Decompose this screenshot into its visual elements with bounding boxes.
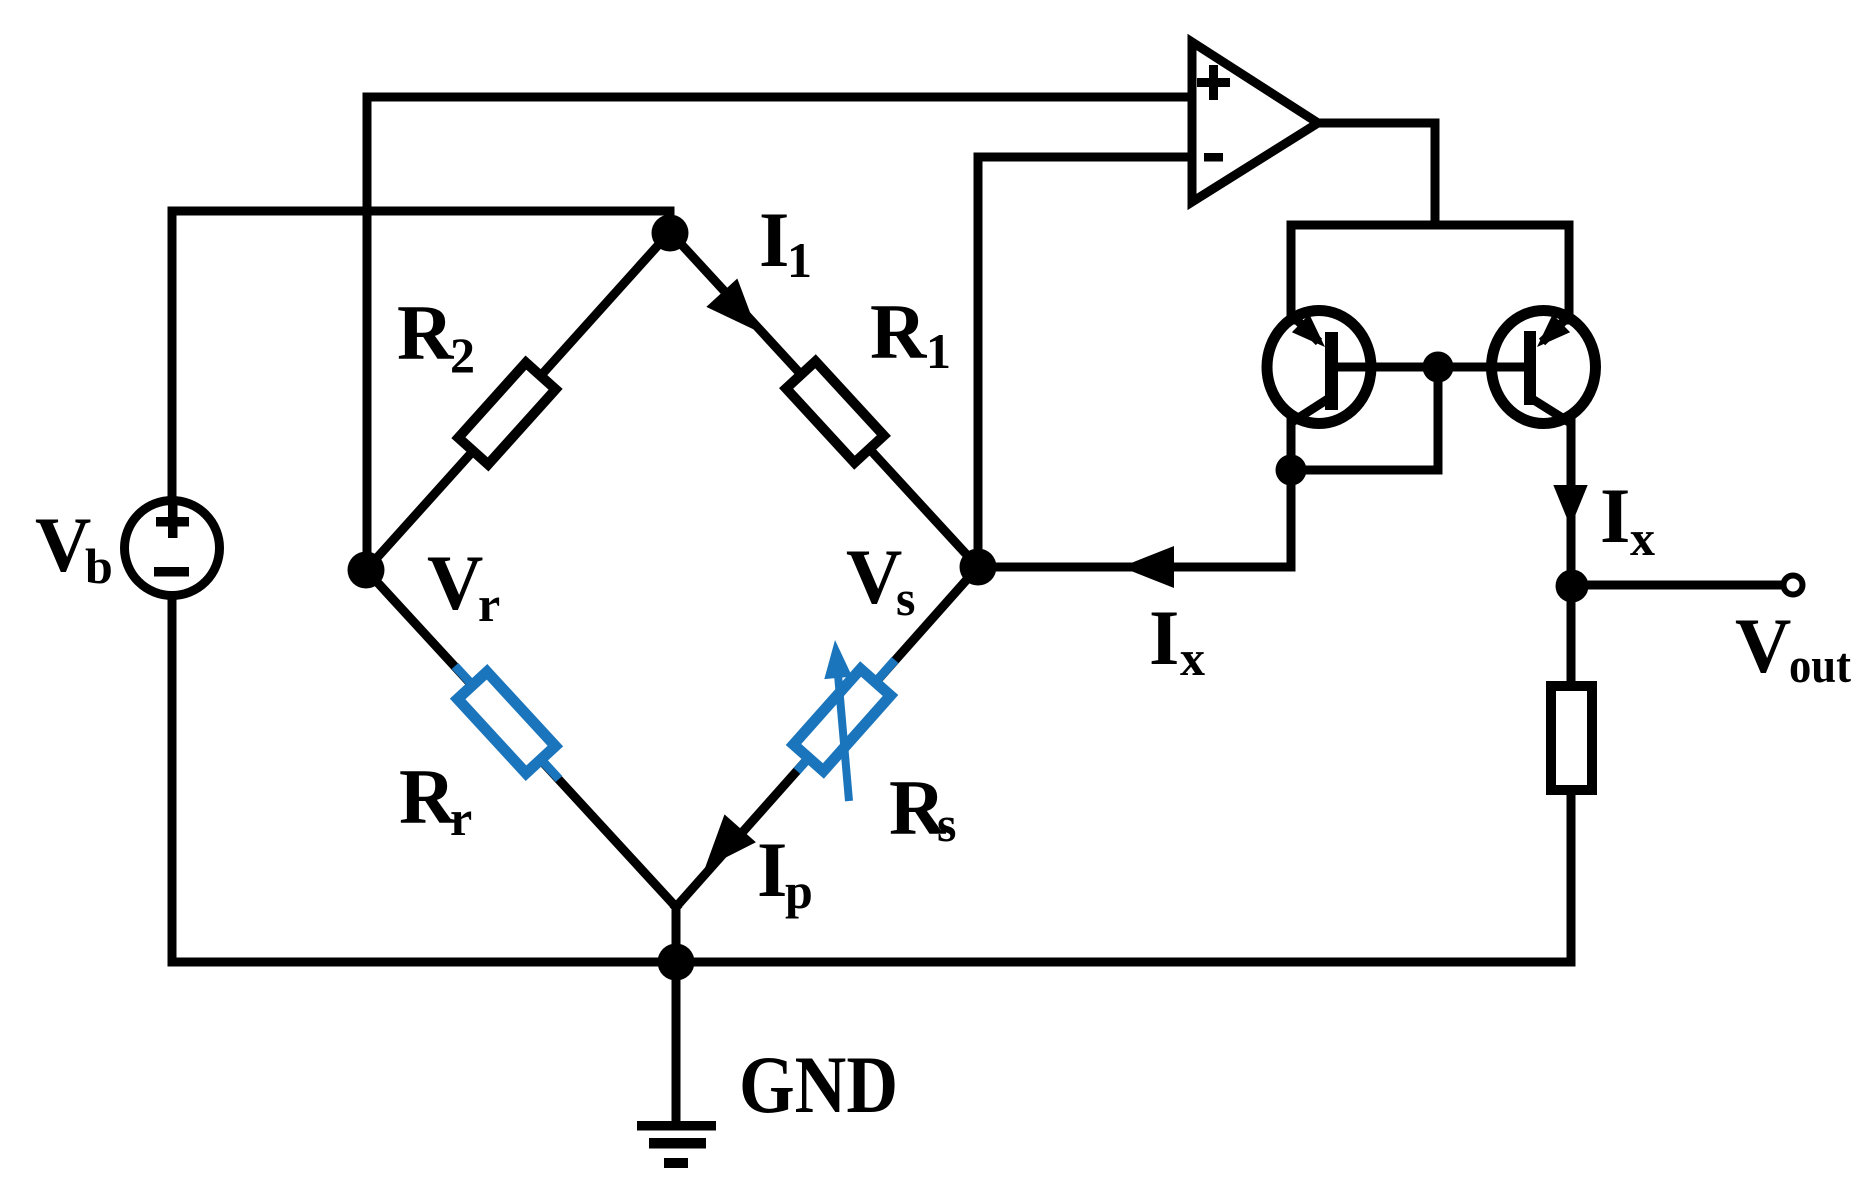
arrow I1 [706, 279, 757, 332]
transistor Q2 (PNP) [1492, 311, 1596, 425]
wire RL bottom lead [1567, 790, 1576, 962]
node Vs [960, 549, 997, 586]
arrow Ip [705, 814, 756, 868]
wire opamp plus input horizontal [367, 93, 1192, 102]
svg-text:2: 2 [450, 327, 475, 383]
resistor Rr (blue) [455, 666, 559, 779]
svg-text:1: 1 [926, 323, 951, 379]
ground [637, 1121, 716, 1168]
wire bridge branch R1 top-right [670, 232, 978, 567]
svg-text:V: V [846, 533, 902, 620]
svg-text:I: I [759, 196, 789, 283]
svg-text:R: R [399, 753, 457, 840]
wire Q1 collector down to Vs wire [1287, 418, 1296, 567]
wire Q2 collector down to Vout node [1567, 418, 1576, 686]
wire Vb bottom lead [168, 595, 177, 962]
svg-text:out: out [1789, 637, 1851, 693]
svg-text:V: V [427, 539, 483, 626]
svg-text:s: s [937, 796, 956, 852]
resistor RL [1551, 686, 1592, 790]
node base rail [1423, 352, 1454, 383]
svg-text:I: I [1149, 594, 1179, 681]
node top of bridge [652, 215, 689, 252]
transistor Q1 (diode-connected PNP) [1267, 311, 1371, 425]
svg-text:r: r [450, 790, 472, 846]
wire Vout stub [1572, 581, 1781, 590]
arrow Ix mid [1121, 546, 1174, 588]
wire bridge bottom to ground [672, 907, 681, 1121]
op-amp U1 [1192, 42, 1318, 202]
svg-text:I: I [1600, 472, 1630, 559]
wire collector dot to base dot [1291, 367, 1438, 470]
wire opamp output [1318, 123, 1435, 225]
node ground rail junction [658, 944, 695, 981]
svg-text:GND: GND [739, 1039, 898, 1130]
resistor R2 [458, 363, 555, 465]
voltage source Vb [125, 501, 220, 596]
resistor R1 [786, 361, 884, 462]
wire bridge branch Rs bottom-right [676, 567, 978, 907]
wire emitter rail [1291, 221, 1569, 230]
svg-text:V: V [1735, 602, 1791, 689]
svg-text:p: p [785, 863, 813, 919]
svg-text:I: I [757, 826, 787, 913]
wire Vs to opamp minus input [978, 157, 1192, 567]
svg-text:R: R [870, 288, 928, 375]
wire Q2 emitter lead [1565, 225, 1574, 320]
wire Q1 collector to Vs node with Ix [978, 563, 1291, 572]
node Vout junction [1556, 570, 1589, 603]
arrow Ix right [1553, 485, 1587, 527]
node Vr [348, 552, 385, 589]
wire bridge branch Rr bottom-left [366, 570, 676, 907]
svg-text:b: b [85, 538, 113, 594]
wire Vb top to bridge top [172, 211, 670, 232]
svg-text:V: V [35, 501, 91, 588]
wire vertical from plus input to node Vr [363, 97, 372, 570]
wire Vb top lead [168, 211, 177, 501]
svg-text:r: r [478, 576, 500, 632]
resistor Rs (blue, variable) [794, 640, 896, 801]
svg-text:x: x [1180, 630, 1205, 686]
svg-text:1: 1 [787, 232, 812, 288]
wire Q1 emitter lead [1287, 225, 1296, 320]
wire bottom ground rail [172, 958, 1571, 967]
terminal Vout open circle [1784, 576, 1803, 595]
svg-text:x: x [1630, 510, 1655, 566]
wire base rail between Q1 Q2 [1338, 363, 1525, 372]
wire bridge branch R2 top-left [366, 232, 670, 570]
svg-text:R: R [397, 289, 455, 376]
node Q1 collector-base tie [1276, 455, 1307, 486]
svg-text:s: s [896, 570, 915, 626]
